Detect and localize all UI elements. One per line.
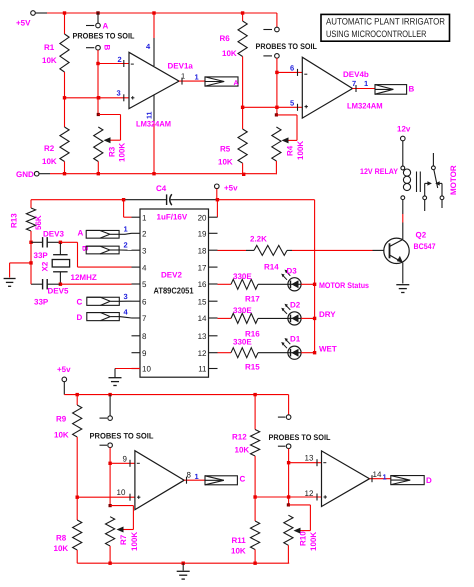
svg-text:C4: C4 <box>156 184 167 193</box>
svg-text:X2: X2 <box>41 261 50 271</box>
svg-text:DEV5: DEV5 <box>48 287 69 296</box>
svg-text:1uF/16V: 1uF/16V <box>157 213 188 222</box>
svg-text:PROBES TO SOIL: PROBES TO SOIL <box>269 433 331 442</box>
svg-text:1: 1 <box>364 79 368 88</box>
svg-text:R5: R5 <box>220 145 231 154</box>
svg-text:6: 6 <box>142 297 147 306</box>
svg-text:DEV2: DEV2 <box>161 271 182 280</box>
svg-text:R12: R12 <box>232 433 247 442</box>
svg-text:33P: 33P <box>34 298 49 307</box>
svg-text:10: 10 <box>117 488 126 497</box>
svg-text:Q2: Q2 <box>416 231 427 240</box>
svg-text:LM324AM: LM324AM <box>136 120 171 129</box>
svg-text:330E: 330E <box>233 306 252 315</box>
svg-text:17: 17 <box>198 263 207 272</box>
svg-text:DEV1a: DEV1a <box>168 62 194 71</box>
svg-text:+5V: +5V <box>16 19 31 28</box>
svg-text:B: B <box>103 45 112 51</box>
svg-text:14: 14 <box>198 314 207 323</box>
svg-text:3: 3 <box>142 246 147 255</box>
svg-text:10K: 10K <box>222 49 237 58</box>
svg-text:BC547: BC547 <box>414 242 436 251</box>
svg-text:56K: 56K <box>34 215 43 230</box>
svg-text:B: B <box>409 85 415 94</box>
svg-text:330E: 330E <box>233 272 252 281</box>
svg-text:330E: 330E <box>233 338 252 347</box>
svg-text:R2: R2 <box>44 144 55 153</box>
svg-text:WET: WET <box>319 345 337 354</box>
svg-text:10K: 10K <box>42 56 57 65</box>
svg-text:100K: 100K <box>118 143 127 162</box>
svg-text:10K: 10K <box>218 158 233 167</box>
svg-text:19: 19 <box>198 230 207 239</box>
svg-text:MOTOR Status: MOTOR Status <box>319 281 369 290</box>
svg-text:A: A <box>103 22 109 31</box>
svg-text:MOTOR: MOTOR <box>449 165 458 195</box>
svg-text:D: D <box>426 476 432 485</box>
svg-text:PROBES TO SOIL: PROBES TO SOIL <box>256 42 318 51</box>
svg-text:1: 1 <box>124 225 128 234</box>
svg-text:1: 1 <box>383 473 387 482</box>
svg-text:D2: D2 <box>290 300 301 309</box>
svg-text:7: 7 <box>142 314 147 323</box>
svg-text:R3: R3 <box>108 146 117 157</box>
svg-text:+5v: +5v <box>224 184 238 193</box>
svg-text:12v: 12v <box>397 125 411 134</box>
svg-text:LM324AM: LM324AM <box>347 102 383 111</box>
svg-text:16: 16 <box>198 280 207 289</box>
svg-text:R6: R6 <box>220 34 231 43</box>
svg-text:D: D <box>77 313 83 322</box>
svg-text:5: 5 <box>142 280 147 289</box>
svg-text:7: 7 <box>352 79 356 88</box>
svg-text:R15: R15 <box>245 363 260 372</box>
svg-text:R9: R9 <box>56 415 67 424</box>
svg-text:R17: R17 <box>245 294 260 303</box>
svg-text:8: 8 <box>187 471 192 480</box>
svg-text:D3: D3 <box>287 266 298 275</box>
svg-text:1: 1 <box>195 472 199 481</box>
svg-text:1: 1 <box>195 73 199 82</box>
svg-text:10K: 10K <box>231 547 246 556</box>
svg-text:10K: 10K <box>54 544 69 553</box>
svg-text:11: 11 <box>147 111 154 119</box>
svg-text:PROBES TO SOIL: PROBES TO SOIL <box>73 32 135 41</box>
svg-text:2.2K: 2.2K <box>250 235 267 244</box>
svg-text:18: 18 <box>198 246 207 255</box>
svg-text:R7: R7 <box>119 534 128 545</box>
svg-text:12MHZ: 12MHZ <box>71 273 97 282</box>
svg-text:3: 3 <box>117 89 121 98</box>
svg-text:1: 1 <box>181 72 185 81</box>
svg-text:20: 20 <box>198 213 207 222</box>
svg-text:R11: R11 <box>232 536 247 545</box>
svg-text:10: 10 <box>142 365 151 374</box>
svg-text:3: 3 <box>124 292 128 301</box>
svg-text:DEV4b: DEV4b <box>343 70 369 79</box>
svg-text:13: 13 <box>305 454 314 463</box>
svg-text:1: 1 <box>142 213 147 222</box>
svg-text:R1: R1 <box>44 43 55 52</box>
svg-text:AUTOMATIC PLANT IRRIGATOR: AUTOMATIC PLANT IRRIGATOR <box>326 17 445 27</box>
svg-text:+5v: +5v <box>57 365 71 374</box>
svg-text:12V RELAY: 12V RELAY <box>360 167 399 176</box>
svg-text:100K: 100K <box>296 141 305 160</box>
svg-text:12: 12 <box>305 489 314 498</box>
svg-text:10K: 10K <box>54 431 69 440</box>
svg-text:10K: 10K <box>42 157 57 166</box>
svg-text:6: 6 <box>290 64 294 73</box>
svg-text:9: 9 <box>142 349 147 358</box>
svg-text:C: C <box>77 298 83 307</box>
svg-text:DRY: DRY <box>319 310 336 319</box>
svg-text:5: 5 <box>290 99 294 108</box>
svg-text:A: A <box>234 80 239 87</box>
svg-text:100K: 100K <box>309 532 318 551</box>
svg-text:C: C <box>240 475 246 484</box>
svg-text:9: 9 <box>123 454 128 463</box>
svg-text:PROBES TO SOIL: PROBES TO SOIL <box>90 432 154 441</box>
svg-text:2: 2 <box>124 241 128 250</box>
svg-text:8: 8 <box>142 332 147 341</box>
svg-text:2: 2 <box>118 55 122 64</box>
svg-text:R10: R10 <box>299 531 308 546</box>
svg-text:DEV3: DEV3 <box>43 230 64 239</box>
svg-text:14: 14 <box>373 470 382 479</box>
svg-text:USING MICROCONTROLLER: USING MICROCONTROLLER <box>326 29 427 39</box>
svg-text:10K: 10K <box>235 446 250 455</box>
svg-text:D1: D1 <box>290 335 301 344</box>
svg-text:AT89C2051: AT89C2051 <box>154 286 194 296</box>
svg-text:33P: 33P <box>34 251 49 260</box>
svg-text:13: 13 <box>198 332 207 341</box>
svg-text:R4: R4 <box>286 145 295 156</box>
svg-text:4: 4 <box>142 263 147 272</box>
svg-text:12: 12 <box>198 349 207 358</box>
svg-text:R8: R8 <box>56 534 67 543</box>
svg-text:A: A <box>78 229 84 238</box>
svg-text:R14: R14 <box>264 263 279 272</box>
svg-text:11: 11 <box>198 365 207 374</box>
svg-text:GND: GND <box>16 170 34 179</box>
svg-text:R13: R13 <box>10 213 19 228</box>
svg-text:15: 15 <box>198 297 207 306</box>
svg-text:100K: 100K <box>130 532 139 551</box>
svg-text:2: 2 <box>142 230 147 239</box>
